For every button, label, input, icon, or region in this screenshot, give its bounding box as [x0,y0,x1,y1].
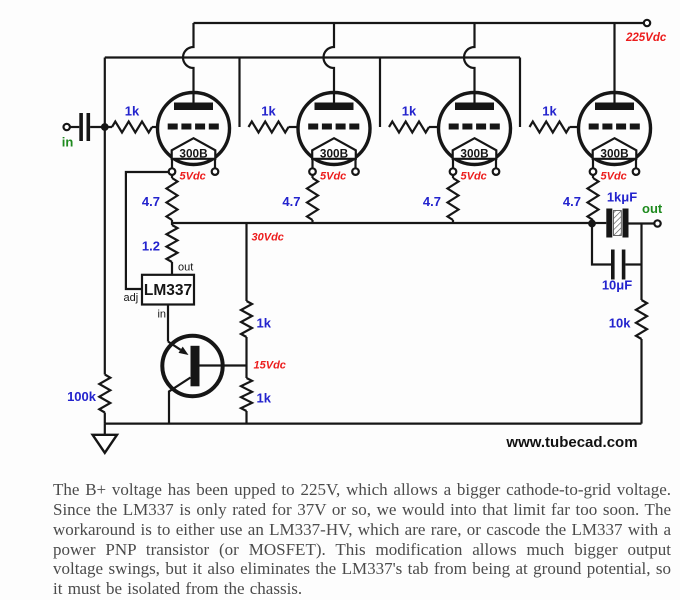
svg-text:1k: 1k [257,316,272,331]
svg-text:4.7: 4.7 [282,194,300,209]
svg-text:5Vdc: 5Vdc [461,170,487,182]
svg-text:30Vdc: 30Vdc [252,232,284,244]
svg-text:300B: 300B [460,146,488,160]
svg-text:225Vdc: 225Vdc [625,32,667,44]
svg-text:4.7: 4.7 [142,194,160,209]
svg-text:LM337: LM337 [144,282,192,299]
svg-text:1kμF: 1kμF [607,190,637,205]
svg-text:out: out [178,262,193,274]
svg-text:300B: 300B [600,146,628,160]
svg-text:10μF: 10μF [602,278,632,293]
svg-text:5Vdc: 5Vdc [601,170,627,182]
svg-text:300B: 300B [320,146,348,160]
svg-text:4.7: 4.7 [423,194,441,209]
svg-text:1k: 1k [261,104,276,119]
svg-text:5Vdc: 5Vdc [320,170,346,182]
svg-text:in: in [62,134,74,149]
svg-text:1k: 1k [125,104,140,119]
svg-text:1k: 1k [257,391,272,406]
svg-text:5Vdc: 5Vdc [180,170,206,182]
svg-text:in: in [157,309,166,321]
svg-text:adj: adj [124,292,139,304]
svg-text:4.7: 4.7 [563,194,581,209]
svg-text:15Vdc: 15Vdc [254,359,286,371]
svg-text:1k: 1k [542,104,557,119]
svg-text:www.tubecad.com: www.tubecad.com [505,434,637,451]
svg-text:1k: 1k [402,104,417,119]
svg-text:10k: 10k [609,316,631,331]
svg-text:out: out [642,201,663,216]
svg-text:1.2: 1.2 [142,239,160,254]
svg-text:100k: 100k [67,389,97,404]
svg-text:300B: 300B [179,146,207,160]
